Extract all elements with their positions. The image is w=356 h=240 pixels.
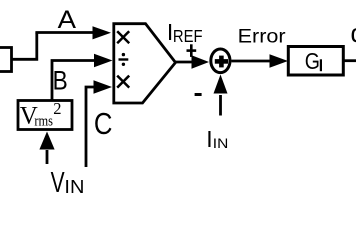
wire IREF: multiplier output to summing junction	[176, 55, 210, 69]
arrow IIN into summing junction	[214, 75, 228, 116]
wire A into multiplier pin 1	[35, 26, 111, 39]
bold plus inside summing junction	[215, 56, 228, 68]
wire B from Vrms2 block output into multiplier pin 2	[52, 54, 113, 101]
svg-text:IN: IN	[64, 176, 84, 197]
minus sign at summing junction lower input	[195, 93, 202, 96]
multiply symbol (pin 3)	[117, 76, 129, 88]
wire: input box to node A	[12, 33, 37, 60]
svg-text:C: C	[94, 106, 113, 141]
divide symbol (pin 2)	[119, 53, 129, 66]
svg-text:IN: IN	[213, 135, 229, 151]
input box (partially cut off at left edge)	[0, 48, 12, 72]
wire d output to right edge	[343, 59, 356, 62]
arrow VIN into Vrms2 block	[39, 132, 54, 165]
multiply symbol (pin 1)	[117, 31, 129, 43]
svg-text:Error: Error	[238, 26, 287, 48]
label Vrms^2	[20, 99, 62, 130]
plus sign at summing junction upper input	[187, 44, 197, 57]
wire C into multiplier pin 3	[86, 80, 112, 167]
svg-text:V: V	[51, 167, 65, 199]
svg-text:d: d	[351, 18, 356, 48]
svg-text:I: I	[206, 126, 212, 152]
multiplier-divider block U1	[114, 24, 176, 103]
svg-text:A: A	[58, 6, 77, 34]
label VIN	[51, 167, 85, 199]
Vrms squared block	[18, 101, 72, 130]
block GI	[288, 47, 343, 76]
svg-text:G: G	[305, 48, 320, 74]
svg-text:REF: REF	[173, 26, 203, 46]
svg-text:rms: rms	[34, 114, 53, 130]
summing junction	[211, 49, 230, 73]
wire Error: summing junction to GI block	[232, 54, 289, 68]
svg-text:B: B	[53, 65, 68, 95]
svg-text:2: 2	[53, 99, 61, 118]
